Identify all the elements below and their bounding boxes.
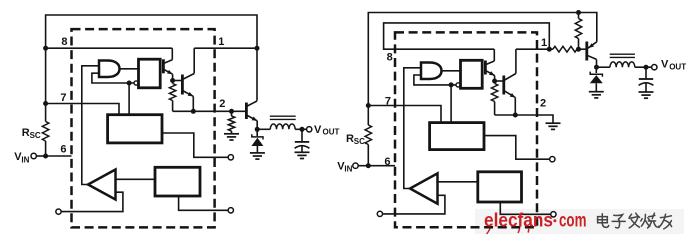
- wire pin 7 line into oscillator (right): [368, 106, 441, 123]
- transistor Q4 collector stroke: [587, 55, 597, 59]
- junction pull-up resistor on VIN rail: [576, 10, 581, 15]
- wire diode to ground (right): [595, 83, 597, 91]
- terminal VIN (left): [31, 153, 36, 158]
- ground output cap (right): [639, 91, 654, 93]
- ground bleed resistor (left): [224, 133, 239, 135]
- watermark light-gray patch: [475, 209, 684, 234]
- svg-text:IN: IN: [344, 165, 352, 174]
- junction oscillator output node: [449, 82, 454, 87]
- wire Q2 collector to pin 8 rail: [171, 48, 173, 60]
- reference block 1.25V: [478, 172, 522, 202]
- svg-text:com: com: [559, 211, 587, 232]
- junction Q2 emitter node: [492, 79, 497, 84]
- wire emitter resistor to pin 2 line: [172, 101, 174, 112]
- svg-text:R: R: [22, 127, 30, 139]
- wire oscillator to AND gate lower input and latch reset: [92, 73, 134, 83]
- wire pull-up to base node: [578, 39, 580, 50]
- wire cap tap down (right): [645, 67, 647, 79]
- wire node to internal emitter resistor: [172, 81, 174, 84]
- terminal pin 4 ground (right): [551, 212, 556, 217]
- AND gate: [99, 61, 120, 78]
- wire emitter node to inductor: [257, 128, 270, 130]
- wire pin 1 line (right): [516, 48, 553, 50]
- wire oscillator to pin 3 terminal: [162, 133, 228, 157]
- wire pin 6 stub: [46, 155, 72, 157]
- wire left rail below RSC (right): [367, 145, 369, 166]
- wire VIN rail: left wire, top rail, down to Q3 collector: [46, 15, 257, 122]
- transistor Q1 switch base bar: [181, 75, 184, 95]
- wire Q2 emitter down to node: [172, 74, 174, 80]
- IC dashed box (left MC34063): [72, 29, 215, 227]
- terminal pin 5 feedback (right): [377, 211, 382, 216]
- junction Q1 emitter on pin 2 line: [513, 113, 518, 118]
- wire comparator feedback to pin 5 terminal: [61, 192, 123, 211]
- transistor Q4 emitter stroke with arrow into base: [588, 42, 597, 48]
- logo Chinese character zi (child): [612, 215, 625, 228]
- junction pin 7 tap on left wire: [43, 101, 48, 106]
- transistor Q2 driver base bar: [484, 61, 487, 75]
- transistor Q2 emitter stroke with arrow: [163, 69, 172, 74]
- transistor Q1 emitter stroke with arrow: [182, 91, 193, 97]
- transistor Q2 collector stroke: [485, 61, 494, 65]
- wire pin2 node to bleed resistor: [231, 111, 233, 116]
- inverting bubble on latch input: [456, 83, 460, 87]
- diode D2 (Schottky catch diode): [590, 72, 603, 84]
- wire pin 2 line to ground (right): [495, 115, 553, 123]
- inductor L1 (left): [270, 124, 295, 129]
- logo Chinese character dian (electric): [598, 214, 609, 228]
- junction oscillator output node: [127, 81, 132, 86]
- wire oscillator output rises to latch net: [450, 85, 452, 123]
- junction pin 8 tap on left wire: [43, 46, 48, 51]
- wire inner rail pins 8-1 tie: [384, 23, 550, 49]
- wire comparator feedback to pin 5 terminal (right): [382, 195, 445, 214]
- wire cap tap down: [301, 129, 303, 142]
- wire bleed resistor to ground: [231, 131, 233, 134]
- wire inductor to VOUT: [295, 128, 307, 130]
- terminal pin 3 timing capacitor (right): [550, 157, 555, 162]
- transistor Q1 emitter stroke with arrow: [504, 91, 516, 98]
- junction Q4 collector node: [594, 65, 599, 70]
- svg-text:7: 7: [385, 95, 391, 107]
- inductor L2 core lines: [610, 53, 635, 55]
- resistor RSC (right): [365, 125, 371, 145]
- wire AND gate output to latch: [120, 68, 139, 70]
- wire VIN terminal to left wire (right): [358, 165, 368, 167]
- wire pin 6 stub (right): [368, 165, 395, 167]
- wire left rail below RSC: [45, 141, 47, 156]
- wire base node to Q4 base: [577, 48, 587, 50]
- junction VIN node: [43, 154, 48, 159]
- logo Chinese character you (friend): [659, 214, 672, 229]
- svg-text:V: V: [314, 124, 322, 136]
- wire oscillator to AND gate lower input and latch reset: [414, 75, 456, 85]
- svg-text:SC: SC: [354, 137, 365, 146]
- svg-text:SC: SC: [30, 131, 41, 140]
- svg-text:V: V: [661, 59, 669, 71]
- transistor Q3 external NPN base bar: [245, 103, 248, 120]
- transistor Q1 collector stroke: [182, 74, 194, 80]
- junction Q3 emitter node: [255, 127, 260, 132]
- capacitor CO2 (output filter cap): [639, 79, 654, 85]
- junction output cap tap (left): [300, 127, 305, 132]
- wire reference to pin 4 terminal (right): [500, 202, 551, 214]
- wire cap to ground: [301, 146, 303, 152]
- comparator: [410, 173, 438, 203]
- wire emitter node to catch diode (right): [595, 67, 597, 73]
- wire Q1 collector to pin 1 line: [193, 48, 195, 73]
- wire comparator output to AND gate input: [82, 66, 99, 185]
- transistor Q1 collector stroke: [504, 74, 516, 81]
- svg-text:8: 8: [387, 51, 393, 63]
- capacitor CO1 (output filter cap): [295, 142, 310, 148]
- ground output cap (left): [295, 151, 310, 153]
- wire emitter resistor to pin 2 line: [494, 102, 496, 116]
- wire comparator input to reference block: [438, 181, 478, 183]
- latch block: [139, 59, 161, 88]
- logo Chinese character fa (emit): [629, 213, 640, 228]
- wire pin 8 line: [46, 47, 173, 49]
- AND gate: [421, 63, 442, 80]
- svg-text:R: R: [346, 133, 354, 145]
- junction Q2 emitter node: [170, 78, 175, 83]
- wire reference to pin 4 terminal: [179, 196, 229, 210]
- terminal VIN (right): [353, 163, 358, 168]
- svg-text:OUT: OUT: [669, 63, 686, 72]
- junction external base resistor tap: [229, 109, 234, 114]
- ground pin 2 (right): [546, 122, 561, 124]
- resistor internal emitter resistor: [491, 84, 497, 102]
- inverting bubble on latch input: [134, 81, 138, 85]
- resistor RSC (left): [42, 122, 48, 142]
- reference block 1.25V: [155, 167, 200, 196]
- logo Chinese character shao (burn): [641, 213, 659, 228]
- junction output cap tap (right): [644, 65, 649, 70]
- terminal pin 4 ground (left): [228, 208, 233, 213]
- svg-text:2: 2: [219, 98, 225, 110]
- svg-text:6: 6: [384, 156, 390, 168]
- junction VIN node (right): [366, 163, 371, 168]
- resistor internal emitter resistor: [169, 84, 175, 101]
- wire collector node to inductor (right): [597, 66, 611, 68]
- wire Q1 emitter to pin 2 node: [514, 98, 516, 116]
- comparator: [88, 170, 116, 200]
- wire oscillator output rises to latch net: [128, 83, 130, 115]
- wire diode to ground: [256, 146, 258, 153]
- ground catch diode (left): [250, 152, 265, 154]
- svg-text:2: 2: [540, 98, 546, 110]
- wire inductor to VOUT (right): [635, 66, 652, 68]
- IC dashed box (right MC34063): [395, 32, 537, 227]
- terminal VOUT (left): [307, 127, 312, 132]
- diode D1 (Schottky catch diode): [251, 134, 263, 146]
- wire pin 2 line to external transistor base: [173, 110, 247, 112]
- transistor Q2 emitter stroke with arrow: [485, 70, 494, 75]
- junction pins 1-8 tie: [547, 47, 552, 52]
- resistor base pull-up (right): [575, 19, 581, 39]
- wire Q2 collector to pin 8 rail: [493, 49, 495, 61]
- svg-text:IN: IN: [21, 155, 29, 164]
- inductor L2 (right): [610, 62, 635, 67]
- wire oscillator to pin 3 terminal (right): [484, 136, 550, 160]
- wire cap to ground (right): [645, 83, 647, 92]
- wire Q2 emitter to Q1 base: [173, 80, 183, 82]
- wire comparator output to AND gate input: [404, 68, 421, 189]
- transistor Q1 switch base bar: [502, 76, 505, 95]
- wire VIN terminal to left wire: [36, 155, 45, 157]
- junction pin 7 tap on left wire (right): [366, 103, 371, 108]
- wire Q4 collector to output node: [596, 59, 598, 67]
- wire pin 7 line into oscillator: [46, 104, 119, 115]
- transistor Q4 external PNP base bar: [585, 42, 588, 61]
- svg-text:1: 1: [541, 37, 547, 49]
- terminal VOUT (right): [652, 65, 657, 70]
- resistor base series from pin 1 (right): [553, 46, 577, 52]
- wire Q1 collector to pin 1 line: [515, 49, 517, 73]
- ground catch diode (right): [589, 91, 604, 93]
- wire emitter node to catch diode: [256, 129, 258, 136]
- inductor L1 core lines: [270, 115, 296, 117]
- wire pin 1 line: [194, 47, 257, 49]
- wire Q1 emitter to pin 2 node: [192, 96, 194, 111]
- wire comparator input to reference block: [116, 178, 156, 180]
- logo dot: [553, 219, 556, 222]
- svg-text:6: 6: [60, 144, 66, 156]
- junction pin 1 to VIN rail: [255, 46, 260, 51]
- oscillator block: [430, 123, 484, 150]
- wire node to internal emitter resistor: [494, 81, 496, 84]
- svg-text:1: 1: [218, 36, 224, 48]
- svg-text:8: 8: [61, 36, 67, 48]
- oscillator block: [108, 115, 162, 143]
- wire Q3 emitter to output node: [256, 121, 258, 130]
- junction Q1 emitter on pin 2 line: [191, 109, 196, 114]
- svg-text:7: 7: [60, 92, 66, 104]
- terminal pin 3 timing capacitor (left): [228, 155, 233, 160]
- svg-text:elecfans: elecfans: [484, 211, 553, 232]
- svg-text:OUT: OUT: [323, 128, 340, 137]
- junction base node (right): [576, 47, 581, 52]
- transistor Q2 collector stroke: [163, 60, 172, 64]
- resistor base-emitter bleed (left): [228, 116, 234, 131]
- wire Q2 emitter to Q1 base: [495, 80, 504, 82]
- transistor Q3 collector stroke: [246, 101, 257, 107]
- wire rail to pull-up resistor: [578, 13, 580, 19]
- wire VIN rail: left wire, outer top rail, down to Q4 collector: [368, 13, 597, 126]
- transistor Q3 emitter stroke with arrow: [246, 115, 257, 121]
- transistor Q2 driver base bar: [162, 59, 165, 73]
- logo red drip strokes: [487, 229, 491, 235]
- terminal pin 5 feedback (left): [56, 209, 61, 214]
- latch block: [461, 60, 483, 88]
- wire Q2 emitter down to node: [494, 76, 496, 82]
- wire AND gate output to latch: [442, 70, 461, 72]
